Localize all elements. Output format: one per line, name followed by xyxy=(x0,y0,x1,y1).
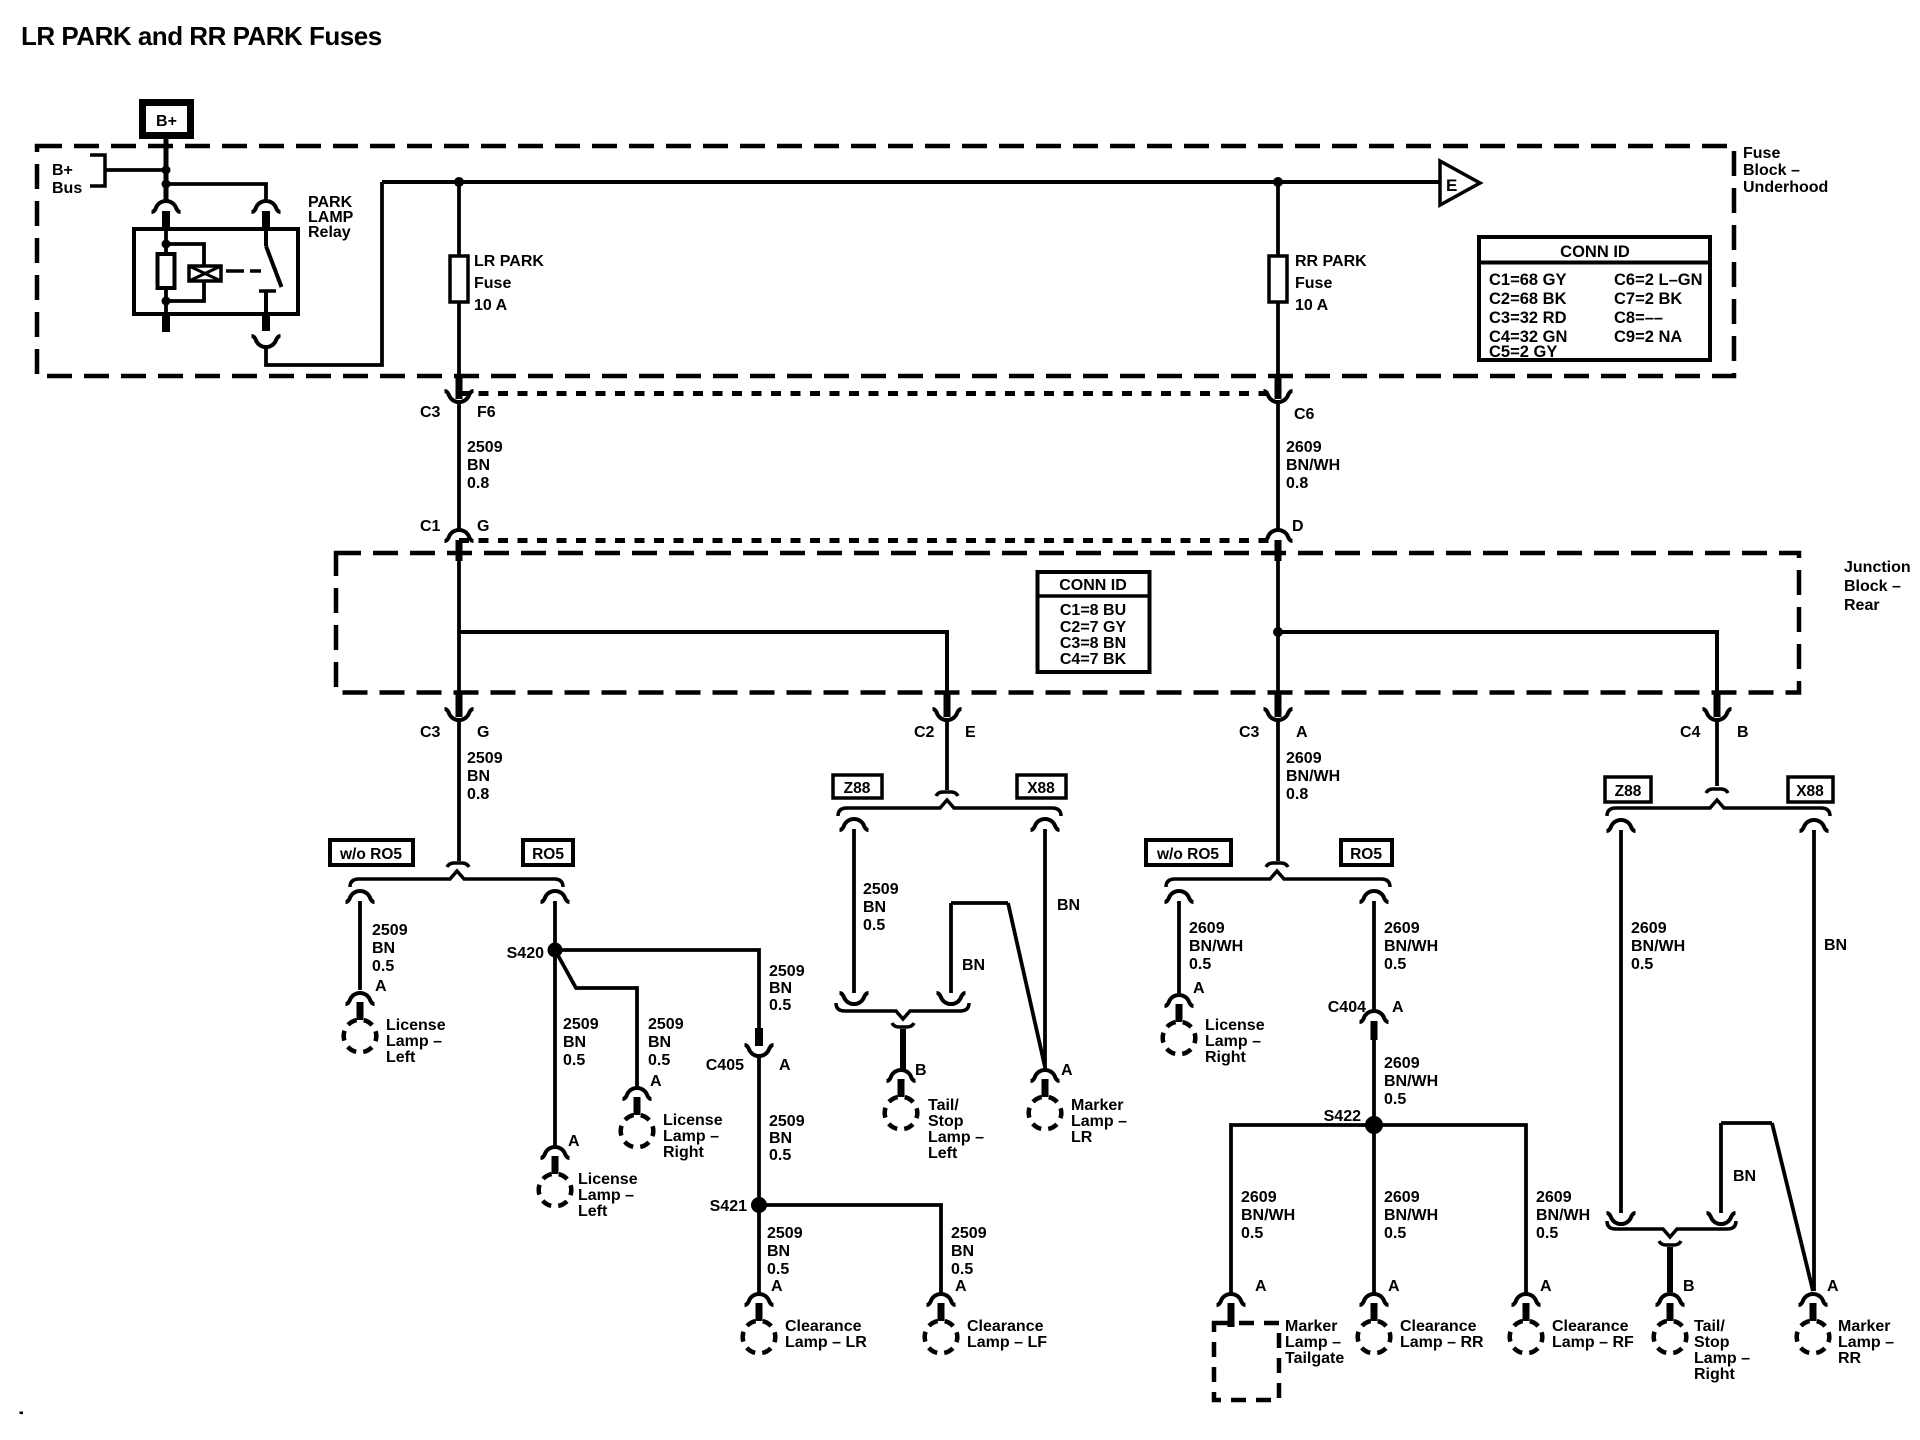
svg-text:0.5: 0.5 xyxy=(769,1147,791,1164)
svg-text:0.5: 0.5 xyxy=(648,1052,670,1069)
svg-text:2509: 2509 xyxy=(767,1225,803,1242)
svg-text:Stop: Stop xyxy=(928,1113,964,1130)
svg-text:0.8: 0.8 xyxy=(467,786,489,803)
connector C405 cavity A xyxy=(706,1028,791,1074)
junction block - rear (dashed boundary) xyxy=(336,553,1799,693)
svg-text:Clearance: Clearance xyxy=(1552,1318,1629,1335)
svg-text:BN: BN xyxy=(648,1034,671,1051)
junction dot xyxy=(1273,627,1283,637)
splice S421 xyxy=(751,1197,767,1213)
wire to marker lamp RR xyxy=(1812,830,1816,1291)
svg-text:Tailgate: Tailgate xyxy=(1285,1350,1344,1367)
svg-text:2509: 2509 xyxy=(467,439,503,456)
svg-text:0.8: 0.8 xyxy=(467,475,489,492)
relay switch lower contact xyxy=(259,291,276,314)
svg-text:Lamp –: Lamp – xyxy=(386,1033,442,1050)
lamp: Marker Lamp - Tailgate (dashed box) xyxy=(1214,1294,1279,1400)
svg-text:A: A xyxy=(1392,999,1404,1016)
junction block left wire xyxy=(457,560,461,696)
svg-text:0.5: 0.5 xyxy=(1631,956,1653,973)
svg-text:Lamp –: Lamp – xyxy=(1694,1350,1750,1367)
svg-text:2609: 2609 xyxy=(1631,920,1667,937)
svg-text:2509: 2509 xyxy=(467,750,503,767)
wire to C404 xyxy=(1372,901,1376,1010)
svg-text:Z88: Z88 xyxy=(844,780,871,797)
svg-text:0.5: 0.5 xyxy=(767,1261,789,1278)
wire BN jog to tail lamp gather xyxy=(1719,1123,1723,1213)
connector boundary dotted line xyxy=(459,538,1278,543)
wire C404 to splice S422 xyxy=(1372,1040,1376,1125)
svg-text:License: License xyxy=(386,1017,446,1034)
Clearance Lamp - RR label xyxy=(1400,1318,1484,1351)
svg-text:2509: 2509 xyxy=(769,963,805,980)
svg-text:Fuse: Fuse xyxy=(1743,145,1780,162)
svg-text:BN/WH: BN/WH xyxy=(1536,1207,1590,1224)
svg-text:Lamp – RF: Lamp – RF xyxy=(1552,1334,1634,1351)
svg-text:2609: 2609 xyxy=(1189,920,1225,937)
svg-text:F6: F6 xyxy=(477,404,496,421)
relay switch contact xyxy=(264,229,268,246)
option box RO5 xyxy=(523,840,573,865)
License Lamp - Left label xyxy=(578,1171,638,1220)
svg-text:CONN ID: CONN ID xyxy=(1560,243,1630,261)
svg-text:Right: Right xyxy=(1205,1049,1247,1066)
svg-text:Junction: Junction xyxy=(1844,559,1911,576)
svg-text:LR PARK and RR PARK Fuses: LR PARK and RR PARK Fuses xyxy=(21,21,382,51)
lamp: License Lamp - Left (w/o RO5) xyxy=(346,993,375,1004)
wire circuit 2609 xyxy=(1276,403,1280,529)
svg-text:BN/WH: BN/WH xyxy=(1384,938,1438,955)
svg-text:E: E xyxy=(965,724,976,741)
svg-text:10 A: 10 A xyxy=(474,297,508,314)
wire circuit 2509 drop xyxy=(457,721,461,861)
svg-text:2509: 2509 xyxy=(648,1016,684,1033)
relay internal wire xyxy=(164,229,168,254)
svg-text:C5=2 GY: C5=2 GY xyxy=(1489,343,1557,361)
branch connector xyxy=(541,891,570,902)
svg-text:BN/WH: BN/WH xyxy=(1384,1207,1438,1224)
svg-text:Tail/: Tail/ xyxy=(1694,1318,1725,1335)
License Lamp - Right label xyxy=(1205,1017,1265,1066)
wire label 2509 BN 0.8 xyxy=(467,439,503,492)
Marker Lamp - RR label xyxy=(1838,1318,1894,1367)
svg-text:2509: 2509 xyxy=(769,1113,805,1130)
lamp: Clearance Lamp - LR xyxy=(745,1294,774,1305)
License Lamp - Left label xyxy=(386,1017,446,1066)
svg-text:2609: 2609 xyxy=(1536,1189,1572,1206)
svg-text:Lamp –: Lamp – xyxy=(1838,1334,1894,1351)
wire end hook xyxy=(447,863,469,867)
wire label 2609 BN/WH 0.5 xyxy=(1189,920,1243,973)
Tail/Stop Lamp - Left label xyxy=(928,1097,984,1162)
wire C405 to splice S421 xyxy=(757,1057,761,1205)
License Lamp - Right label xyxy=(663,1112,723,1161)
lamp: License Lamp - Left (RO5) xyxy=(541,1147,570,1158)
svg-text:Fuse: Fuse xyxy=(1295,275,1332,292)
svg-text:C4: C4 xyxy=(1680,724,1701,741)
svg-text:B+: B+ xyxy=(52,162,73,179)
svg-text:BN/WH: BN/WH xyxy=(1631,938,1685,955)
junction block label xyxy=(1844,559,1911,614)
wire relay output to bus xyxy=(266,182,382,365)
wire RR PARK fuse down xyxy=(1276,302,1280,378)
lamp: Tail/Stop Lamp - Right xyxy=(1656,1294,1685,1305)
wire diagonal to marker lamp RR xyxy=(1772,1123,1813,1291)
svg-text:C9=2 NA: C9=2 NA xyxy=(1614,328,1682,346)
svg-text:A: A xyxy=(1540,1278,1552,1295)
svg-text:C2: C2 xyxy=(914,724,935,741)
Marker Lamp - Tailgate label xyxy=(1285,1318,1344,1367)
relay resistor xyxy=(158,254,175,288)
svg-text:RR: RR xyxy=(1838,1350,1862,1367)
svg-text:Fuse: Fuse xyxy=(474,275,511,292)
svg-text:0.5: 0.5 xyxy=(1241,1225,1263,1242)
lamp: Clearance Lamp - RR xyxy=(1360,1294,1389,1305)
junction dot xyxy=(162,180,171,189)
svg-text:Left: Left xyxy=(578,1203,608,1220)
junction block branch wire to C2 xyxy=(459,632,947,696)
arrow E (to other circuits) xyxy=(1440,161,1480,205)
wire BN jog to tail lamp gather xyxy=(949,903,953,993)
svg-text:Clearance: Clearance xyxy=(1400,1318,1477,1335)
svg-text:0.5: 0.5 xyxy=(1384,956,1406,973)
svg-text:2509: 2509 xyxy=(951,1225,987,1242)
wire end cup xyxy=(937,993,966,1004)
junction block right wire xyxy=(1276,560,1280,696)
svg-text:B+: B+ xyxy=(156,113,177,130)
svg-text:BN/WH: BN/WH xyxy=(1286,457,1340,474)
wire S422 to clearance lamp RF xyxy=(1374,1125,1526,1293)
junction dot xyxy=(162,240,171,249)
svg-text:A: A xyxy=(650,1073,662,1090)
junction dot xyxy=(162,297,171,306)
LR PARK fuse 10A xyxy=(450,253,544,314)
svg-text:C404: C404 xyxy=(1328,999,1366,1016)
svg-text:LR: LR xyxy=(1071,1129,1093,1146)
wire S422 to clearance lamp RR xyxy=(1372,1125,1376,1293)
RR PARK fuse 10A xyxy=(1269,253,1367,314)
svg-text:0.5: 0.5 xyxy=(769,997,791,1014)
gather brace to tail/stop lamp right xyxy=(1607,1221,1736,1237)
wire label 2609 BN/WH 0.5 xyxy=(1384,1055,1438,1108)
connector C2 cavity E (junction block) xyxy=(914,693,976,741)
svg-text:S421: S421 xyxy=(710,1198,747,1215)
svg-text:2509: 2509 xyxy=(372,922,408,939)
svg-text:Stop: Stop xyxy=(1694,1334,1730,1351)
svg-text:2609: 2609 xyxy=(1286,439,1322,456)
relay coil branch wire xyxy=(166,244,204,266)
svg-text:A: A xyxy=(955,1278,967,1295)
option split brace xyxy=(1166,871,1390,887)
svg-text:X88: X88 xyxy=(1027,780,1055,797)
Clearance Lamp - RF label xyxy=(1552,1318,1634,1351)
net Z88 box xyxy=(1605,777,1651,802)
wire to tail/stop lamp right xyxy=(1667,1247,1673,1292)
wire label 2509 BN 0.5 xyxy=(951,1225,987,1278)
svg-text:2609: 2609 xyxy=(1384,920,1420,937)
wire hook xyxy=(892,1023,914,1027)
svg-text:Z88: Z88 xyxy=(1615,783,1642,800)
wire end hook xyxy=(936,792,958,796)
svg-text:C1: C1 xyxy=(420,518,441,535)
option box w/o RO5 xyxy=(1146,840,1231,865)
wire circuit 2609 xyxy=(1619,830,1623,1213)
wire jog top xyxy=(1721,1121,1772,1125)
branch connector xyxy=(1031,819,1060,830)
svg-text:w/o RO5: w/o RO5 xyxy=(339,846,402,863)
wire end cup xyxy=(840,993,869,1004)
lamp: License Lamp - Right xyxy=(1165,995,1194,1006)
svg-text:RO5: RO5 xyxy=(1350,846,1382,863)
wire label 2509 BN 0.5 xyxy=(648,1016,684,1069)
fuse block - underhood (dashed boundary) xyxy=(37,146,1734,376)
svg-text:Lamp –: Lamp – xyxy=(663,1128,719,1145)
svg-text:Lamp –: Lamp – xyxy=(1205,1033,1261,1050)
wire drop to harness split xyxy=(1715,721,1719,786)
connector C1 cavity G xyxy=(420,518,489,561)
svg-text:Bus: Bus xyxy=(52,180,82,197)
svg-text:A: A xyxy=(1061,1062,1073,1079)
wire S421 to clearance lamp LR xyxy=(757,1205,761,1293)
svg-text:C405: C405 xyxy=(706,1057,744,1074)
relay linkage dashes xyxy=(226,269,261,273)
svg-text:B: B xyxy=(1737,724,1749,741)
relay coil bottom pin stub xyxy=(162,314,170,332)
connector C4 cavity B (junction block) xyxy=(1680,693,1749,741)
svg-text:BN: BN xyxy=(467,768,490,785)
wire label 2509 BN 0.5 xyxy=(372,922,408,975)
svg-text:BN: BN xyxy=(467,457,490,474)
svg-text:BN: BN xyxy=(1057,897,1080,914)
svg-text:A: A xyxy=(1827,1278,1839,1295)
junction block branch wire to C4 xyxy=(1278,632,1717,696)
relay switch pin connector xyxy=(252,201,281,212)
net Z88 box xyxy=(833,775,882,798)
svg-text:BN: BN xyxy=(372,940,395,957)
wire end cup xyxy=(1607,1213,1636,1224)
svg-text:BN/WH: BN/WH xyxy=(1241,1207,1295,1224)
wire label 2509 BN 0.5 xyxy=(767,1225,803,1278)
junction dot node LR PARK xyxy=(454,177,464,187)
svg-text:10 A: 10 A xyxy=(1295,297,1329,314)
svg-text:C6: C6 xyxy=(1294,406,1315,423)
connector C6 cavity xyxy=(1264,376,1315,423)
wire end cup xyxy=(1707,1213,1736,1224)
connector C3 cavity G (junction block) xyxy=(420,693,489,741)
svg-text:C2=68 BK: C2=68 BK xyxy=(1489,290,1567,308)
svg-text:Lamp –: Lamp – xyxy=(1071,1113,1127,1130)
wire label 2609 BN/WH 0.8 xyxy=(1286,750,1340,803)
svg-text:A: A xyxy=(1296,724,1308,741)
svg-text:w/o RO5: w/o RO5 xyxy=(1156,846,1219,863)
fuse block - underhood label xyxy=(1743,145,1828,196)
connector C3 cavity A (junction block) xyxy=(1239,693,1308,741)
svg-text:BN: BN xyxy=(962,957,985,974)
wire drop to harness split xyxy=(945,721,949,790)
svg-text:0.5: 0.5 xyxy=(563,1052,585,1069)
wire S420 diagonal branch xyxy=(555,950,637,1087)
svg-text:0.8: 0.8 xyxy=(1286,475,1308,492)
lamp: Marker Lamp - RR xyxy=(1799,1294,1828,1305)
svg-text:BN: BN xyxy=(563,1034,586,1051)
svg-text:A: A xyxy=(568,1133,580,1150)
svg-text:BN: BN xyxy=(767,1243,790,1260)
CONN ID table (junction block) xyxy=(1038,572,1150,672)
svg-text:Left: Left xyxy=(386,1049,416,1066)
PARK LAMP relay label xyxy=(308,194,354,241)
svg-text:Right: Right xyxy=(1694,1366,1736,1383)
gather brace to tail/stop lamp left xyxy=(836,1003,969,1019)
svg-text:C3: C3 xyxy=(1239,724,1260,741)
svg-text:License: License xyxy=(1205,1017,1265,1034)
svg-text:Marker: Marker xyxy=(1285,1318,1337,1335)
PARK LAMP relay K1 box xyxy=(134,229,298,314)
option box w/o RO5 xyxy=(330,840,413,865)
svg-text:RR PARK: RR PARK xyxy=(1295,253,1367,270)
wire bus to LR PARK fuse xyxy=(457,182,461,256)
branch connector xyxy=(840,819,869,830)
svg-text:Relay: Relay xyxy=(308,224,351,241)
junction dot node RR PARK xyxy=(1273,177,1283,187)
svg-text:Lamp –: Lamp – xyxy=(928,1129,984,1146)
svg-text:Lamp –: Lamp – xyxy=(578,1187,634,1204)
svg-text:0.5: 0.5 xyxy=(372,958,394,975)
svg-text:A: A xyxy=(375,978,387,995)
branch connector xyxy=(1607,820,1636,831)
svg-text:Marker: Marker xyxy=(1838,1318,1890,1335)
svg-text:Lamp – RR: Lamp – RR xyxy=(1400,1334,1484,1351)
relay switch blade xyxy=(266,246,282,287)
wire from B+ symbol down xyxy=(164,139,169,201)
svg-text:Block –: Block – xyxy=(1743,162,1800,179)
Clearance Lamp - LR label xyxy=(785,1318,867,1351)
svg-text:Right: Right xyxy=(663,1144,705,1161)
wire branch to relay switch pin xyxy=(166,184,266,201)
svg-text:C1=8 BU: C1=8 BU xyxy=(1060,602,1126,619)
svg-text:D: D xyxy=(1292,518,1304,535)
harness split brace xyxy=(838,800,1061,816)
branch connector xyxy=(346,891,375,902)
lamp: Clearance Lamp - LF xyxy=(927,1294,956,1305)
svg-text:C1=68 GY: C1=68 GY xyxy=(1489,271,1567,289)
wire to marker lamp LR xyxy=(1043,829,1047,1069)
relay coil (box with X) xyxy=(189,266,221,281)
junction dot xyxy=(162,166,171,175)
svg-text:0.5: 0.5 xyxy=(1536,1225,1558,1242)
splice S420 xyxy=(548,943,563,958)
svg-text:Clearance: Clearance xyxy=(967,1318,1044,1335)
svg-text:2609: 2609 xyxy=(1384,1055,1420,1072)
wire circuit 2509 xyxy=(852,829,856,993)
svg-text:Rear: Rear xyxy=(1844,597,1880,614)
svg-text:2509: 2509 xyxy=(863,881,899,898)
svg-text:S422: S422 xyxy=(1324,1108,1361,1125)
svg-text:License: License xyxy=(578,1171,638,1188)
wire circuit 2609 drop xyxy=(1276,721,1280,861)
lamp: License Lamp - Right xyxy=(623,1088,652,1099)
svg-text:RO5: RO5 xyxy=(532,846,564,863)
svg-text:BN: BN xyxy=(1733,1168,1756,1185)
svg-text:C3=32 RD: C3=32 RD xyxy=(1489,309,1567,327)
wire label 2609 BN/WH 0.8 xyxy=(1286,439,1340,492)
svg-text:Lamp – LF: Lamp – LF xyxy=(967,1334,1047,1351)
lamp: Clearance Lamp - RF xyxy=(1512,1294,1541,1305)
wire label 2609 BN/WH 0.5 xyxy=(1631,920,1685,973)
svg-text:A: A xyxy=(771,1278,783,1295)
wire to tail/stop lamp left xyxy=(900,1029,906,1069)
svg-text:BN/WH: BN/WH xyxy=(1286,768,1340,785)
svg-text:BN: BN xyxy=(1824,937,1847,954)
wire xyxy=(164,288,168,314)
branch connector xyxy=(1360,891,1389,902)
wire label 2509 BN 0.5 xyxy=(769,1113,805,1164)
svg-text:A: A xyxy=(1255,1278,1267,1295)
svg-text:0.5: 0.5 xyxy=(951,1261,973,1278)
svg-text:A: A xyxy=(779,1057,791,1074)
svg-text:License: License xyxy=(663,1112,723,1129)
svg-text:BN: BN xyxy=(769,1130,792,1147)
wire to license lamp left xyxy=(358,901,362,990)
svg-text:0.5: 0.5 xyxy=(1189,956,1211,973)
lamp: Tail/Stop Lamp - Left xyxy=(887,1070,916,1081)
svg-text:C7=2 BK: C7=2 BK xyxy=(1614,290,1682,308)
svg-text:E: E xyxy=(1446,176,1457,195)
svg-text:A: A xyxy=(1193,980,1205,997)
option split brace xyxy=(350,871,563,887)
wire label 2509 BN 0.5 xyxy=(863,881,899,934)
svg-text:2609: 2609 xyxy=(1286,750,1322,767)
wire label 2509 BN 0.5 xyxy=(769,963,805,1014)
relay output pin connector xyxy=(252,314,281,347)
connector C3 cavity F6 xyxy=(420,376,496,421)
svg-text:X88: X88 xyxy=(1796,783,1824,800)
svg-text:BN: BN xyxy=(863,899,886,916)
wire label 2609 BN/WH 0.5 xyxy=(1241,1189,1295,1242)
wire LR PARK fuse down xyxy=(457,302,461,378)
wire B+ Bus to node xyxy=(105,168,166,172)
svg-text:C4=7 BK: C4=7 BK xyxy=(1060,651,1127,668)
wire bus to RR PARK fuse xyxy=(1276,182,1280,256)
splice S422 xyxy=(1365,1116,1383,1134)
svg-text:G: G xyxy=(477,724,489,741)
wire xyxy=(166,281,204,301)
connector cavity D xyxy=(1264,518,1304,561)
B+ Bus label and bracket xyxy=(52,155,105,197)
option box RO5 xyxy=(1341,840,1392,865)
svg-text:CONN ID: CONN ID xyxy=(1059,577,1127,594)
svg-text:C8=––: C8=–– xyxy=(1614,309,1663,327)
svg-text:B: B xyxy=(915,1062,927,1079)
CONN ID table (fuse block) xyxy=(1479,237,1710,361)
wire label 2509 BN 0.8 xyxy=(467,750,503,803)
wire diagonal to marker lamp LR xyxy=(1008,903,1045,1067)
svg-text:Block –: Block – xyxy=(1844,578,1901,595)
connector boundary dotted line xyxy=(459,391,1278,396)
net X88 box xyxy=(1788,777,1833,802)
branch connector xyxy=(1165,891,1194,902)
svg-text:Clearance: Clearance xyxy=(785,1318,862,1335)
svg-text:2609: 2609 xyxy=(1241,1189,1277,1206)
svg-text:Lamp –: Lamp – xyxy=(1285,1334,1341,1351)
wire S420 to C405 xyxy=(555,950,759,1028)
connector C404 cavity A xyxy=(1328,999,1404,1040)
wire to splice S420 xyxy=(553,901,557,950)
wire label 2509 BN 0.5 xyxy=(563,1016,599,1069)
wire S420 down to license lamp left xyxy=(553,950,557,1146)
svg-text:B: B xyxy=(1683,1278,1695,1295)
svg-text:Left: Left xyxy=(928,1145,958,1162)
main feed bus wire xyxy=(382,180,1440,184)
